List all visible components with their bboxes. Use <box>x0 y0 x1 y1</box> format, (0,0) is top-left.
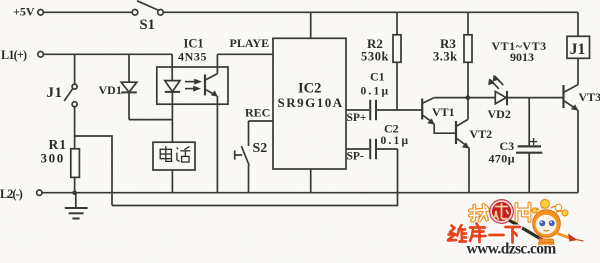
wire VD1 to IC1 cathode <box>129 119 172 121</box>
svg-text:4N35: 4N35 <box>178 49 207 63</box>
switch S1 <box>132 10 138 16</box>
wire rail1 <box>42 192 578 194</box>
svg-text:SP+: SP+ <box>347 112 367 124</box>
svg-text:0.1μ: 0.1μ <box>361 85 391 97</box>
resistor R1 <box>71 149 80 178</box>
svg-text:L1(+): L1(+) <box>1 48 27 62</box>
wire node to R1 <box>74 136 76 149</box>
wire top rail <box>163 11 578 13</box>
node +5V terminal <box>38 10 44 16</box>
wire SP- pin <box>346 148 369 150</box>
box 电话 telephone <box>153 142 195 170</box>
svg-text:C1: C1 <box>370 70 385 84</box>
svg-text:VT3: VT3 <box>579 90 600 104</box>
node dot R1/L2 <box>72 190 77 195</box>
IC1 emitter arrowhead <box>211 90 218 96</box>
wire collector rail <box>434 97 495 99</box>
wire REC <box>249 120 274 122</box>
wire L1 into IC1 LED <box>171 54 173 80</box>
wire rail2 <box>112 149 398 206</box>
VD2 light arrowheads <box>488 78 494 85</box>
node L1 terminal <box>38 52 44 58</box>
watermark text 维库一下 <box>448 224 520 243</box>
magnifier handle pen <box>511 221 546 242</box>
wire telephone to rail1 <box>171 170 173 193</box>
svg-text:VT1: VT1 <box>432 105 455 119</box>
svg-text:470μ: 470μ <box>489 152 515 166</box>
resistor R3 <box>467 12 469 35</box>
svg-text:300: 300 <box>41 150 65 165</box>
wire IC2 bottom pin <box>310 169 312 193</box>
wire C2 to rail2 drop <box>377 148 398 150</box>
wire PLAYE <box>217 53 273 55</box>
transistor VT1 <box>421 99 423 120</box>
capacitor C1 <box>369 100 371 120</box>
IC1 light arrows <box>194 79 202 85</box>
watermark logo 找芯片 magnifier <box>470 200 546 242</box>
wire drop to J1 switch <box>74 54 76 84</box>
resistor R2 <box>396 12 398 35</box>
svg-text:SR9G10A: SR9G10A <box>278 95 344 110</box>
svg-text:9013: 9013 <box>510 50 534 64</box>
transistor VT3 <box>562 85 564 108</box>
diode VD1 <box>128 54 130 82</box>
svg-text:+5V: +5V <box>13 5 35 19</box>
svg-text:L2(-): L2(-) <box>0 187 23 201</box>
op-amp IC1 box <box>157 67 228 104</box>
jack J1 <box>72 84 77 89</box>
node L2 terminal <box>37 190 42 195</box>
VT3 emitter arrowhead <box>571 104 579 110</box>
LED VD2 <box>495 91 506 103</box>
watermark mascot <box>532 199 584 253</box>
svg-text:0.1μ: 0.1μ <box>381 135 411 147</box>
svg-text:3.3k: 3.3k <box>433 50 458 64</box>
diode IC1 LED <box>165 81 180 92</box>
VT1 emitter arrowhead <box>427 118 435 124</box>
svg-text:www.dzsc.com: www.dzsc.com <box>467 241 557 258</box>
magnifier circle with chip 芯 <box>490 200 514 224</box>
node dot R3/VT2 <box>466 95 471 100</box>
wire R1 to rail1 <box>74 177 76 192</box>
svg-text:REC: REC <box>245 106 270 120</box>
transistor VT2 <box>455 121 457 144</box>
svg-text:VT2: VT2 <box>470 127 493 141</box>
svg-text:VD2: VD2 <box>488 107 511 121</box>
wire top rail drop to J1 box <box>577 12 579 36</box>
svg-text:SP-: SP- <box>347 151 364 163</box>
svg-text:R2: R2 <box>367 36 383 51</box>
capacitor C3 <box>528 98 530 146</box>
svg-text:530k: 530k <box>361 50 389 64</box>
svg-text:J1: J1 <box>570 41 586 58</box>
transistor IC1 phototransistor <box>204 74 206 95</box>
VT2 emitter arrowhead <box>462 142 470 148</box>
svg-text:VD1: VD1 <box>99 83 122 97</box>
svg-text:S2: S2 <box>253 141 268 156</box>
svg-text:C2: C2 <box>384 122 399 136</box>
svg-text:J1: J1 <box>47 85 63 101</box>
box text 电话 (drawn strokes) <box>160 146 190 162</box>
svg-text:PLAYE: PLAYE <box>230 36 270 50</box>
svg-text:R3: R3 <box>440 36 456 51</box>
wire IC2 top pin <box>310 12 312 38</box>
ground <box>75 193 77 208</box>
jack J1 box <box>567 36 590 58</box>
wire node right jog <box>75 136 112 206</box>
svg-text:S1: S1 <box>140 17 155 33</box>
wire L1 row <box>44 53 173 55</box>
wire SP+ pin <box>346 109 369 111</box>
wire +5V to S1 <box>44 11 133 13</box>
switch S2 <box>241 146 249 165</box>
wire C1 to VT1 base <box>377 109 422 111</box>
IC2 box <box>273 38 346 169</box>
wire J1 to node <box>74 107 76 136</box>
capacitor C2 <box>369 139 371 159</box>
